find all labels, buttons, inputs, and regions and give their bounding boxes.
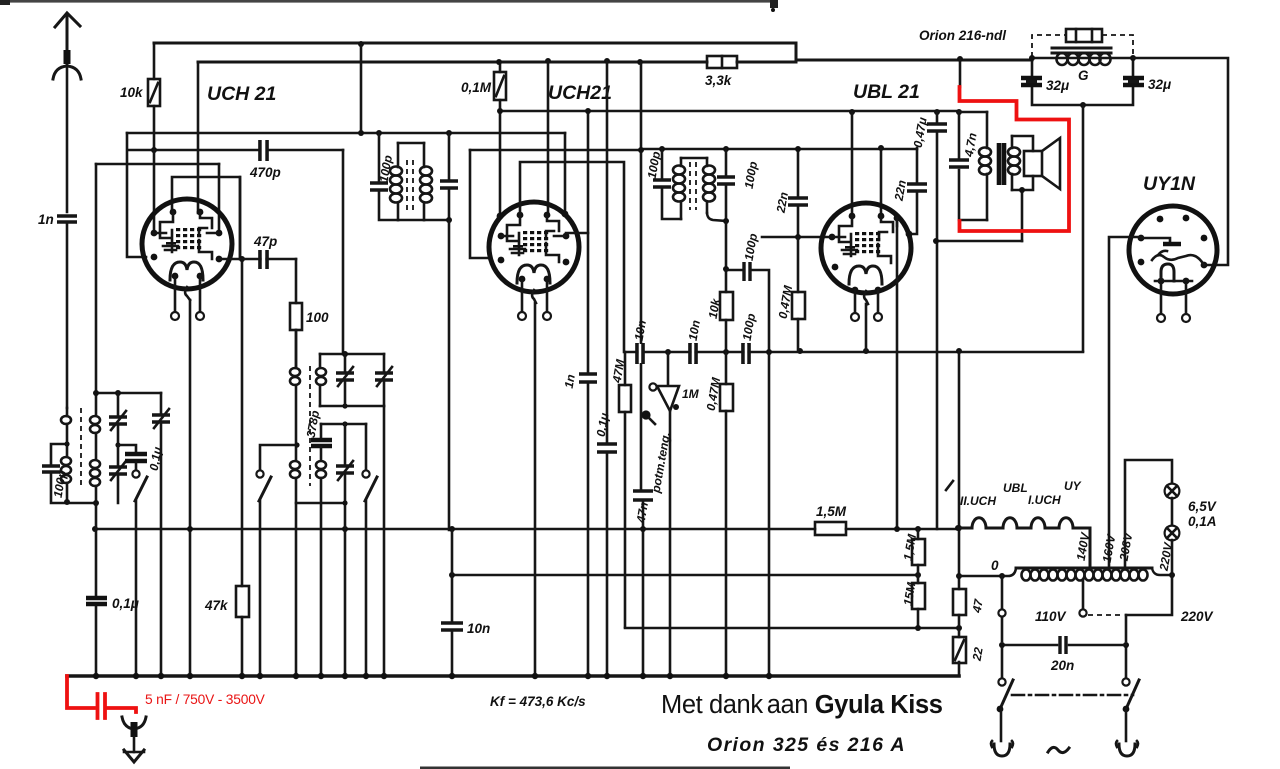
junction node 200,212 — [197, 209, 204, 216]
junction node 366,676 — [363, 673, 369, 679]
switch link dash-dot — [1012, 694, 1133, 697]
antenna coil secondary — [95, 393, 98, 414]
node A IF1 left — [376, 130, 382, 136]
tube UBL21 envelope — [821, 203, 911, 293]
junction node 219,259 — [216, 256, 223, 263]
scan border top — [0, 0, 778, 3]
junction node 449,220 — [446, 217, 452, 223]
junction node 668,352 — [665, 349, 671, 355]
junction node 1161,281 — [1158, 278, 1165, 285]
ground bus junction dots — [93, 673, 772, 679]
junction node 154,233 — [151, 230, 158, 237]
capacitor 100p (AF) — [740, 312, 759, 364]
capacitor 100p IF2 left — [662, 149, 681, 219]
junction node 918,575 — [915, 572, 921, 578]
osc secondary lower — [316, 461, 326, 478]
wire x607 long down — [606, 61, 609, 676]
junction node 800,351 — [797, 348, 803, 354]
junction node 773,10 — [771, 8, 775, 12]
junction node 1083,105 — [1080, 102, 1086, 108]
junction node 499,62 — [496, 59, 502, 65]
junction node 918,628 — [915, 625, 921, 631]
trimmer osc C — [344, 424, 347, 465]
node dot 243,259 — [239, 256, 245, 262]
resistor 0,1M — [461, 63, 506, 111]
junction node 897,218 — [894, 215, 901, 222]
resistor 1,5M (horizontal) — [815, 504, 847, 535]
junction node 67,502 — [64, 499, 70, 505]
wire UY1N cathode left to 160V tap — [1109, 237, 1141, 567]
tube UCH21 #1 envelope — [142, 199, 232, 289]
loudspeaker — [1012, 136, 1060, 193]
wire bus B y=61 — [198, 60, 1032, 62]
junction node 67,444 — [64, 441, 69, 446]
block frame — [1032, 58, 1133, 105]
capacitor 470p — [249, 140, 281, 180]
resistor 47 — [953, 576, 986, 637]
resistor 10k (detector) — [706, 221, 733, 352]
junction node 1002,576 — [999, 573, 1005, 579]
ground bus y=676 — [67, 674, 959, 678]
wire x1083 B+ down to y351 — [1082, 105, 1085, 351]
IF transformer 1 — [358, 130, 458, 223]
junction node 798,237 — [795, 234, 801, 240]
antenna coil block — [42, 390, 170, 676]
junction node 501,260 — [498, 257, 505, 264]
junction node 522,279 — [519, 276, 526, 283]
earth symbol — [122, 717, 146, 762]
svg-text:20n: 20n — [1050, 658, 1074, 673]
svg-text:UY1N: UY1N — [1143, 173, 1196, 195]
capacitor 0,47u — [911, 112, 947, 529]
IF2 secondary bottom to 10k — [707, 213, 726, 221]
svg-text:220V: 220V — [1180, 609, 1214, 624]
capacitor 1n (tube2) — [562, 373, 597, 389]
capacitor 10n (cathode) — [441, 621, 490, 636]
svg-text:32μ: 32μ — [1148, 77, 1171, 92]
junction node 726,352 — [723, 349, 729, 355]
junction node 175,276 — [172, 273, 179, 280]
filter block (Orion 216-ndl) — [1021, 29, 1171, 108]
junction node 1141,238 — [1138, 235, 1145, 242]
junction node 361,133 — [358, 130, 364, 136]
junction node 959,351 — [956, 348, 962, 354]
junction node 1172,575 — [1169, 572, 1175, 578]
capacitor 1n (antenna) — [38, 212, 77, 408]
wire x96 down to osc coil — [95, 164, 98, 393]
svg-text:22: 22 — [969, 646, 985, 663]
resistor 0,47M (UBL grid leak) — [776, 237, 805, 351]
wire y=352 detector output line — [625, 351, 1083, 354]
junction node 1126,709 — [1123, 706, 1130, 713]
node dots top bus — [358, 41, 364, 47]
capacitor 47n — [633, 491, 653, 525]
junction node 855,290 — [852, 287, 859, 294]
junction node 384,676 — [381, 673, 387, 679]
wire UBL21 grid y=237 — [762, 236, 832, 239]
junction node 897,529 — [894, 526, 900, 532]
capacitor 100p IF1 right — [448, 133, 451, 220]
svg-text:Orion 216-ndl: Orion 216-ndl — [919, 28, 1006, 43]
svg-text:Kf = 473,6 Kc/s: Kf = 473,6 Kc/s — [490, 694, 586, 709]
wire tube2 hexode plate pin — [564, 133, 567, 214]
IF2 secondary coil — [706, 158, 709, 213]
svg-text:100: 100 — [306, 310, 329, 325]
trimmer (band B) — [160, 393, 163, 413]
UBL21 internal electrodes — [832, 216, 897, 284]
wire x154 grid — [153, 150, 156, 233]
svg-text:UBL: UBL — [1003, 481, 1028, 495]
junction node 161,676 — [158, 673, 164, 679]
node dot x154 y150 — [151, 147, 157, 153]
scan border bottom fragment — [420, 767, 790, 769]
junction node 345,424 — [342, 421, 347, 426]
junction node 1141,262 — [1138, 259, 1145, 266]
capacitor 0,1u (demod) — [594, 411, 617, 452]
dashed top with resistor — [1032, 35, 1133, 57]
capacitor 100p IF2 right — [725, 149, 728, 221]
junction node 726,149 — [723, 146, 729, 152]
osc secondary upper — [319, 354, 322, 366]
junction node 535,676 — [532, 673, 538, 679]
wire tube1 cathode down — [189, 300, 192, 676]
svg-text:0,1A: 0,1A — [1188, 514, 1217, 529]
capacitor 0,1u + switch — [118, 445, 136, 453]
junction node 345,354 — [342, 351, 348, 357]
svg-text:UBL 21: UBL 21 — [853, 81, 920, 103]
junction node 852,216 — [849, 213, 856, 220]
core dashed — [80, 408, 82, 488]
padder capacitor — [320, 424, 323, 439]
wire x588 long down — [587, 111, 590, 676]
junction node 1204,238 — [1201, 235, 1208, 242]
junction node 242,676 — [239, 673, 245, 679]
mains switch right — [1116, 678, 1139, 756]
potentiometer 1M — [641, 352, 699, 676]
junction node 449,133 — [446, 130, 452, 136]
junction node 154,257 — [151, 254, 158, 261]
trimmer cap (band A) — [117, 393, 120, 415]
wire x242 screen line down — [240, 177, 242, 676]
resistor 47M — [609, 352, 631, 627]
junction node 321,676 — [318, 673, 324, 679]
junction node 520,215 — [517, 212, 524, 219]
trimmer cap (band A low) — [109, 467, 127, 474]
junction node 1186,281 — [1183, 278, 1190, 285]
junction node 588,676 — [585, 673, 591, 679]
junction node 297,445 — [294, 442, 299, 447]
capacitor 5nF mod (red) — [67, 676, 266, 718]
choke G — [1052, 48, 1111, 53]
tube UCH21 #2 envelope — [489, 202, 579, 292]
wire x769 AF to 1,5M line — [768, 352, 771, 676]
junction node 769,676 — [766, 673, 772, 679]
IF1 core — [407, 160, 413, 212]
antenna symbol — [53, 13, 81, 212]
junction node 345,406 — [342, 403, 347, 408]
junction node 878,290 — [875, 287, 882, 294]
node dots y=112 right — [849, 109, 855, 115]
junction node 676,407 — [673, 404, 679, 410]
resistor 15M vertical — [901, 580, 925, 628]
junction node 835,267 — [832, 264, 839, 271]
capacitor 10n (AF) — [686, 319, 703, 364]
capacitor 100p (detector) — [726, 232, 769, 352]
junction node 118,393 — [115, 390, 121, 396]
tube2 internal electrodes — [501, 215, 566, 283]
switch left (waveband) — [260, 445, 297, 470]
svg-text:G: G — [1078, 68, 1089, 83]
tube2 pins — [497, 211, 570, 283]
tube UY1N envelope — [1129, 206, 1217, 294]
wire x852 to UBL21 pin — [851, 112, 854, 216]
tick mark — [946, 481, 953, 490]
junction node 173,212 — [170, 209, 177, 216]
svg-text:47k: 47k — [204, 598, 229, 613]
svg-text:Orion 325 és 216 A: Orion 325 és 216 A — [707, 734, 906, 756]
junction node 937,112 — [934, 109, 940, 115]
junction node 547,279 — [544, 276, 551, 283]
junction node 959,576 — [956, 573, 962, 579]
wire y=164 — [96, 163, 219, 166]
junction node 566,236 — [563, 233, 570, 240]
capacitor 10p (AF coupling) — [632, 319, 649, 364]
resistor 0,47M (AF grid) — [704, 352, 733, 676]
wire y=406 — [320, 405, 384, 408]
capacitor 22n (IF2) — [773, 146, 808, 237]
resistor 1,5M vertical — [901, 529, 925, 583]
svg-text:UCH21: UCH21 — [548, 82, 612, 104]
wire x881 to UBL21 pin — [880, 148, 883, 216]
resistor 47k — [204, 586, 249, 617]
wire y=628 — [625, 627, 959, 630]
junction node 565,214 — [562, 211, 569, 218]
junction node 1002,645 — [999, 642, 1005, 648]
junction node 452,529 — [449, 526, 455, 532]
capacitor 100p (antenna tap) — [51, 444, 96, 503]
mains switch left — [991, 576, 1013, 756]
svg-text:1n: 1n — [562, 373, 578, 389]
junction node 881,216 — [878, 213, 885, 220]
junction node 641,150 — [638, 147, 644, 153]
IF transformer 2 — [470, 146, 917, 352]
tube1 pins — [151, 209, 223, 280]
IF2 primary coil — [680, 158, 683, 219]
wire y=149 IF2 top / grid line — [470, 149, 917, 150]
junction node 345,529 — [342, 526, 348, 532]
junction node 798,149 — [795, 146, 801, 152]
wire x1022 speaker lead — [1021, 190, 1024, 241]
junction node 918,529 — [915, 526, 921, 532]
switch right (waveband) — [365, 424, 368, 470]
wire x643 long down — [641, 62, 643, 676]
filament winding — [956, 479, 1090, 567]
voltage selector — [1035, 575, 1214, 678]
wire y=529 AVC line — [95, 528, 958, 531]
junction node 607,61 — [604, 58, 610, 64]
capacitor 22n (UBL plate) — [891, 148, 927, 234]
svg-text:47p: 47p — [253, 234, 277, 249]
junction node 136,676 — [133, 673, 139, 679]
junction node 909,234 — [906, 231, 913, 238]
capacitor 4,7n + output transformer primary loop — [949, 109, 1020, 220]
junction node 200,276 — [197, 273, 204, 280]
wire x344 osc feed down — [342, 150, 345, 354]
junction node 452,676 — [449, 673, 455, 679]
scan corner mark — [0, 0, 10, 5]
svg-text:II.UCH: II.UCH — [960, 494, 996, 508]
wire x500 down to tube2 — [499, 111, 502, 214]
mains transformer primary — [956, 531, 1175, 581]
capacitor 0,1u (AVC) — [86, 503, 139, 676]
oscillator coil block — [256, 351, 393, 676]
junction node 96,503 — [93, 500, 99, 506]
svg-text:3,3k: 3,3k — [705, 73, 733, 88]
wire tube2 grid box — [470, 150, 490, 258]
junction node 662,149 — [659, 146, 665, 152]
wire top bus A y=43 — [154, 42, 796, 45]
junction node 1022,190 — [1019, 187, 1025, 193]
junction node 960,59 — [957, 56, 963, 62]
wire step A to B — [795, 43, 798, 60]
junction node 643,529 — [640, 526, 646, 532]
svg-text:1M: 1M — [682, 387, 700, 401]
junction node 959,528 — [956, 525, 962, 531]
UBL21 bottom leads — [851, 290, 882, 321]
pilot lamps — [1125, 460, 1217, 578]
output transformer primary — [986, 112, 989, 148]
wire 100 resistor to osc coil — [295, 330, 298, 368]
junction node 726,676 — [723, 673, 729, 679]
junction node 1000,709 — [997, 706, 1004, 713]
wire y=424 — [321, 423, 366, 426]
antenna coil primary — [66, 408, 69, 416]
svg-text:10k: 10k — [120, 85, 144, 100]
wire 47p line y=259 — [219, 258, 296, 261]
junction node 607,676 — [604, 673, 610, 679]
wire x198 line B left end to tube1 pin — [197, 62, 200, 213]
wire black stub above red — [959, 59, 962, 87]
junction node 501,236 — [498, 233, 505, 240]
svg-text:10n: 10n — [467, 621, 490, 636]
junction node 1032,58 — [1029, 55, 1035, 61]
junction node 190,676 — [187, 673, 193, 679]
junction node 959,112 — [956, 109, 962, 115]
junction node 959,628 — [956, 625, 962, 631]
resistor 3,3k — [705, 56, 737, 88]
wire x361 feed to IF1 — [360, 44, 363, 133]
wire tube2 right pin to x588 — [566, 232, 588, 235]
junction node 769,352 — [766, 349, 772, 355]
junction node 1204,265 — [1201, 262, 1208, 269]
svg-text:I.UCH: I.UCH — [1028, 493, 1061, 507]
svg-text:32μ: 32μ — [1046, 78, 1069, 93]
junction node 1186,218 — [1183, 215, 1190, 222]
junction node 832,237 — [829, 234, 836, 241]
wire y=393 osc top — [96, 392, 161, 395]
wire B+ top right to UY1N — [1133, 58, 1228, 265]
wire x449 long down — [448, 220, 451, 530]
tube2 bottom leads — [518, 279, 551, 320]
resistor 10k — [120, 43, 160, 150]
junction node 958,528 — [955, 525, 961, 531]
svg-text:1,5M: 1,5M — [816, 504, 847, 519]
capacitor 47p — [253, 234, 277, 269]
wire x548 to tube2 pin — [547, 61, 550, 214]
power: wire x960 filament feed — [958, 351, 961, 576]
junction node 1160,219 — [1157, 216, 1164, 223]
capacitor 32u left — [1021, 78, 1042, 85]
junction node 726,221 — [723, 218, 729, 224]
svg-text:1n: 1n — [38, 212, 54, 227]
wire y=150 470p line — [128, 149, 343, 152]
svg-text:Met dankaan Gyula Kiss: Met dankaan Gyula Kiss — [661, 691, 943, 719]
resistor 100 — [290, 259, 329, 366]
wire tube2 cathode down — [534, 303, 537, 676]
junction node 345,676 — [342, 673, 348, 679]
junction node 670,676 — [667, 673, 673, 679]
UY1N pins — [1138, 215, 1208, 285]
wire tube2 triode grid to AF — [520, 162, 624, 352]
junction node 96,676 — [93, 673, 99, 679]
capacitor 32u right — [1123, 78, 1144, 85]
svg-text:0,1M: 0,1M — [461, 80, 492, 95]
AC symbol — [1048, 747, 1069, 752]
wire y=133 grid line tube1 — [127, 132, 565, 135]
junction node 588,111 — [585, 108, 591, 114]
junction node 500,111 — [497, 108, 503, 114]
junction node 566,262 — [563, 259, 570, 266]
UY1N internal electrodes — [1141, 238, 1204, 281]
junction node 219,233 — [216, 230, 223, 237]
capacitor 100p IF1 left — [379, 133, 398, 220]
wire x897 UBL plate down — [896, 218, 899, 529]
junction node 881,148 — [878, 145, 884, 151]
svg-text:UY: UY — [1064, 479, 1082, 493]
junction node 345,503 — [342, 500, 347, 505]
junction node 96,393 — [93, 390, 99, 396]
junction node 500,216 — [497, 213, 504, 220]
capacitor 20n (mains) — [999, 636, 1126, 673]
junction node 866,351 — [863, 348, 869, 354]
svg-text:0,1μ: 0,1μ — [112, 596, 139, 611]
IF1 primary coil — [397, 143, 400, 167]
scan edge mark — [770, 0, 778, 8]
junction node 548,61 — [545, 58, 551, 64]
tube1 internal electrodes — [154, 212, 219, 280]
svg-text:UCH 21: UCH 21 — [207, 83, 276, 105]
junction node 547,215 — [544, 212, 551, 219]
svg-text:5 nF / 750V - 3500V: 5 nF / 750V - 3500V — [145, 692, 266, 707]
output transformer secondary — [1011, 136, 1014, 190]
junction node 118,445 — [115, 442, 120, 447]
junction node 643,676 — [640, 673, 646, 679]
tube1 bottom leads to pins — [171, 276, 204, 320]
IF1 secondary coil — [423, 143, 426, 220]
wire x452 long down — [451, 530, 454, 676]
junction node 1126,645 — [1123, 642, 1129, 648]
trimmer osc A — [344, 354, 347, 371]
junction node 640,62 — [637, 59, 643, 65]
svg-text:110V: 110V — [1035, 609, 1067, 624]
wire bus to 22 resistor — [958, 662, 961, 676]
wire UBL21 cathode to bus — [865, 304, 868, 351]
wire y=575 AVC feed — [452, 574, 918, 577]
junction node 296,676 — [293, 673, 299, 679]
UY1N bottom leads — [1157, 284, 1190, 322]
junction node 190,529 — [187, 526, 193, 532]
wire y=112 AVC/B+ line — [500, 110, 959, 113]
